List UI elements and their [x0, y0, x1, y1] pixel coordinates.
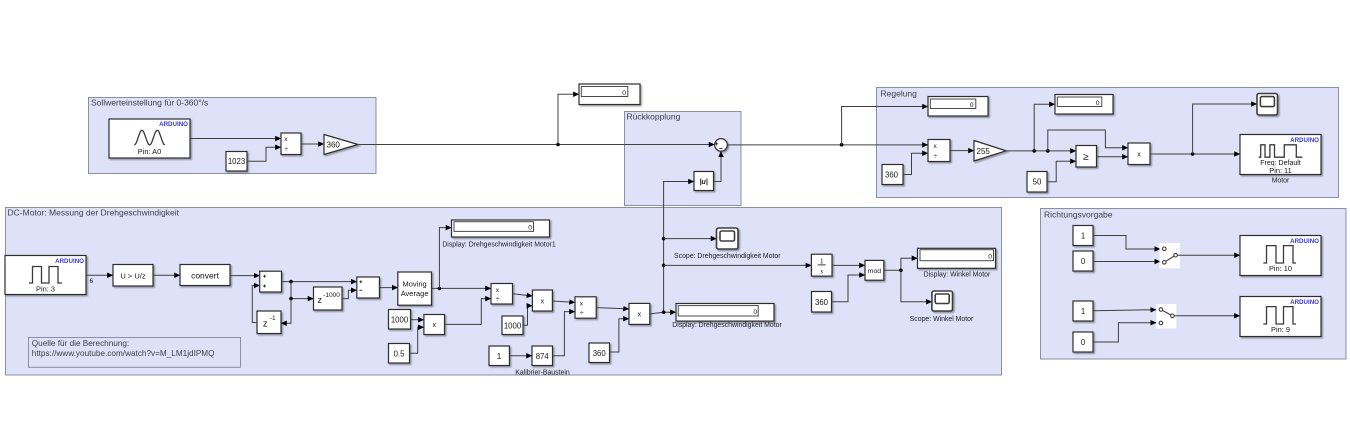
- svg-text:z: z: [263, 319, 268, 329]
- junction setpoint-display: [556, 143, 560, 147]
- gain 360: [324, 135, 358, 155]
- junction D (vertical feedback): [662, 310, 666, 314]
- block ARDUINO PWM Motor Pin 11: [1240, 135, 1321, 175]
- display Regelung 1: [928, 97, 988, 117]
- wire 360 to divide: [903, 153, 928, 174]
- area DC-Motor: [6, 208, 1002, 376]
- wire x2 to x3: [552, 301, 575, 302]
- area Sollwerteinstellung: [89, 98, 377, 174]
- wire pin3 to U>U/z: [86, 274, 113, 276]
- junction C: [438, 287, 442, 291]
- svg-text:0: 0: [1096, 100, 1100, 107]
- wire to scope DG: [664, 238, 717, 240]
- wire branch to scope regelung: [1193, 104, 1257, 154]
- wire 0.5 to x1: [410, 327, 424, 353]
- junction E: [899, 269, 903, 273]
- svg-text:1: 1: [1081, 232, 1085, 241]
- svg-text:z: z: [318, 295, 323, 305]
- svg-text:Sollwerteinstellung für 0-360°: Sollwerteinstellung für 0-360°/s: [91, 98, 208, 108]
- junction integrator branch: [662, 264, 666, 268]
- display Winkel Motor: [918, 248, 996, 268]
- wire main setpoint line: [358, 144, 715, 146]
- svg-text:-1: -1: [270, 315, 276, 322]
- svg-text:1000: 1000: [504, 321, 522, 330]
- display Regelung 2: [1055, 95, 1113, 115]
- svg-text:Rückkopplung: Rückkopplung: [627, 112, 681, 122]
- wire feedback vertical to abs: [664, 182, 694, 313]
- svg-text:÷: ÷: [496, 297, 500, 304]
- manual switch 2: [1156, 304, 1176, 328]
- svg-text:0: 0: [988, 253, 992, 260]
- constant 360 (mod): [812, 292, 832, 313]
- junction product branch: [1046, 149, 1050, 153]
- manual switch 1: [1160, 243, 1181, 268]
- wire convert to sum1: [230, 275, 260, 277]
- svg-text:Kalibrier-Baustein: Kalibrier-Baustein: [515, 369, 570, 376]
- svg-text:DC-Motor: Messung der Drehgesc: DC-Motor: Messung der Drehgeschwindigkei…: [8, 208, 180, 218]
- wire A0 to product: [190, 138, 281, 140]
- svg-text:convert: convert: [191, 270, 220, 280]
- area Richtungsvorgabe: [1041, 209, 1347, 360]
- svg-text:360: 360: [327, 141, 341, 150]
- svg-text:s: s: [820, 267, 823, 276]
- display Sollwert (top): [579, 84, 640, 105]
- sum block S2: [357, 277, 380, 298]
- svg-text:0.5: 0.5: [394, 350, 406, 359]
- wire x3 to x4: [596, 308, 629, 309]
- wire 1000(2) to x2: [523, 306, 532, 326]
- wire 1A to switch1: [1093, 236, 1160, 250]
- product-divide P1: [281, 133, 301, 155]
- constant 0 (Richtung A): [1073, 251, 1093, 271]
- constant 360 (bottom): [589, 343, 610, 363]
- svg-text:ARDUINO: ARDUINO: [1290, 137, 1319, 144]
- constant 1 (Kalibrier): [489, 346, 509, 366]
- svg-text:0: 0: [1081, 338, 1086, 347]
- product Regelung: [1128, 143, 1150, 165]
- svg-text:Motor: Motor: [1272, 177, 1290, 184]
- svg-text:÷: ÷: [580, 310, 584, 317]
- wire to convert: [153, 274, 180, 276]
- wire switch1 to pin10: [1177, 254, 1240, 256]
- display Drehgeschwindigkeit Motor1: [452, 220, 550, 237]
- constant 0 (Richtung B): [1073, 332, 1093, 352]
- svg-text:≥: ≥: [1083, 152, 1089, 163]
- svg-text:x: x: [432, 322, 436, 329]
- junction scope branch regelung: [1191, 152, 1195, 156]
- wire z-1 to S1 lower input: [252, 286, 259, 323]
- wire 360 to x4: [610, 319, 630, 352]
- svg-text:ARDUINO: ARDUINO: [1290, 299, 1319, 306]
- wire mod to display winkel: [884, 258, 918, 270]
- svg-text:0: 0: [970, 102, 974, 109]
- relational operator >=: [1076, 146, 1097, 168]
- svg-text:ARDUINO: ARDUINO: [1290, 238, 1319, 245]
- wire D2 to x2: [513, 294, 533, 296]
- svg-text:÷: ÷: [934, 154, 938, 161]
- wire abs to sum: [714, 151, 722, 181]
- block ARDUINO digital input Pin 3: [5, 256, 86, 295]
- block mod: [865, 260, 884, 280]
- wire S2 to Moving Average: [379, 287, 397, 289]
- area Rueckkopplung: [625, 112, 742, 206]
- svg-text:|u|: |u|: [700, 179, 708, 186]
- junction scope branch: [662, 237, 666, 241]
- sum junction (feedback): [715, 139, 728, 152]
- block ARDUINO analog input A0: [109, 119, 190, 158]
- svg-text:0: 0: [622, 90, 626, 97]
- svg-text:0: 0: [753, 309, 757, 316]
- wire branch to display Regelung2: [1034, 104, 1055, 151]
- wire sum to Regelung divide: [727, 144, 928, 146]
- delay z-1000: [314, 287, 343, 310]
- svg-text:360: 360: [815, 298, 829, 307]
- product-divide x3: [575, 297, 596, 318]
- wire switch2 to pin9: [1174, 315, 1240, 317]
- constant 1000 (2): [502, 316, 523, 335]
- wire branch to product top: [1048, 130, 1128, 151]
- svg-text:x: x: [541, 298, 545, 305]
- svg-text:0: 0: [528, 225, 532, 232]
- svg-text:Average: Average: [401, 289, 429, 298]
- block U > U/z: [113, 265, 153, 287]
- svg-text:6: 6: [90, 278, 94, 285]
- wire 874 to x3: [553, 312, 576, 356]
- svg-text:1023: 1023: [228, 157, 245, 166]
- annotation Quelle: [29, 338, 241, 368]
- svg-text:874: 874: [536, 352, 550, 361]
- wire 0A to switch1: [1093, 261, 1160, 263]
- svg-text:mod: mod: [868, 268, 881, 275]
- wire z-1000 to S2 lower input: [342, 290, 357, 298]
- wire 1/s to mod: [832, 264, 865, 266]
- svg-text:ARDUINO: ARDUINO: [159, 121, 188, 128]
- product x4: [629, 303, 650, 324]
- wire 50 to relational: [1047, 161, 1076, 182]
- svg-text:ARDUINO: ARDUINO: [55, 258, 84, 265]
- svg-text:÷: ÷: [284, 147, 288, 154]
- svg-text:U > U/z: U > U/z: [120, 271, 145, 280]
- svg-text:Regelung: Regelung: [881, 89, 918, 99]
- wire 1B to switch2: [1093, 310, 1156, 311]
- junction B: [289, 297, 293, 301]
- svg-text:x: x: [638, 312, 642, 319]
- svg-text:360: 360: [885, 170, 899, 179]
- product x2: [532, 290, 552, 311]
- constant 1000 (gain numerator): [389, 310, 411, 330]
- svg-text:Display: Winkel Motor: Display: Winkel Motor: [924, 272, 991, 279]
- svg-text:1000: 1000: [391, 316, 409, 325]
- svg-text:1: 1: [497, 352, 501, 361]
- svg-text:-1000: -1000: [323, 292, 340, 299]
- wire 1000 to x1: [411, 319, 424, 321]
- wire x1 to divide2: [445, 299, 492, 325]
- junction A: [289, 280, 293, 284]
- wire mod to scope winkel: [901, 270, 932, 302]
- junction display2 branch: [1032, 149, 1036, 153]
- wire P1 to gain360: [301, 143, 324, 145]
- constant 1 (Richtung B): [1073, 301, 1093, 321]
- abs block |u|: [694, 172, 714, 191]
- wire x4 to display3: [650, 312, 676, 314]
- wire down to z-1000: [291, 282, 314, 299]
- sum block S1: [260, 271, 282, 292]
- wire to integrator: [664, 264, 812, 266]
- svg-text:x: x: [1137, 152, 1141, 159]
- divide block D2: [491, 284, 513, 305]
- svg-text:Scope: Winkel Motor: Scope: Winkel Motor: [910, 316, 974, 323]
- wire S1 to S2: [282, 281, 357, 283]
- wire branch to display1: [439, 228, 451, 289]
- svg-text:Display: Drehgeschwindigkeit M: Display: Drehgeschwindigkeit Motor: [672, 322, 782, 329]
- wire branch to display Regelung1: [842, 107, 928, 145]
- constant 0.5: [389, 344, 410, 364]
- scope Drehgeschwindigkeit Motor: [717, 228, 739, 249]
- svg-text:Moving: Moving: [403, 279, 427, 288]
- wire down to z-1: [281, 299, 291, 324]
- wire gain255 to relational: [1006, 150, 1076, 152]
- scope Winkel Motor: [932, 291, 953, 311]
- svg-text:Pin: 9: Pin: 9: [1271, 325, 1290, 334]
- svg-text:0: 0: [1081, 257, 1086, 266]
- wire 360 to mod: [832, 275, 866, 302]
- wire relational to product: [1097, 156, 1129, 158]
- divide block Regelung: [928, 140, 950, 162]
- block convert: [180, 265, 230, 286]
- constant 1 (Richtung A): [1073, 226, 1093, 246]
- display Drehgeschwindigkeit Motor: [676, 304, 774, 322]
- svg-text:1: 1: [820, 257, 824, 266]
- area Regelung: [877, 88, 1339, 198]
- unit delay z-1 (mirrored): [257, 311, 281, 334]
- wire branch to display top: [558, 94, 579, 144]
- junction regelung display branch: [840, 143, 844, 147]
- svg-text:1: 1: [1081, 307, 1085, 316]
- scope Regelung: [1257, 94, 1278, 116]
- svg-text:https://www.youtube.com/watch?: https://www.youtube.com/watch?v=M_LM1jdI…: [32, 349, 215, 358]
- constant 360 Regelung: [882, 165, 903, 185]
- svg-text:360: 360: [593, 349, 607, 358]
- block Moving Average: [398, 272, 432, 305]
- gain 255: [974, 141, 1006, 162]
- svg-text:Display: Drehgeschwindigkeit M: Display: Drehgeschwindigkeit Motor1: [442, 242, 556, 249]
- wire 0B to switch2: [1093, 323, 1156, 342]
- svg-text:Scope: Drehgeschwindigkeit Mot: Scope: Drehgeschwindigkeit Motor: [674, 253, 781, 260]
- integrator 1/s: [811, 254, 832, 276]
- svg-text:255: 255: [977, 147, 991, 156]
- svg-text:50: 50: [1033, 178, 1042, 187]
- wire MA to divide2: [432, 287, 492, 289]
- wire divide to gain255: [950, 150, 974, 152]
- block ARDUINO PWM Pin 10: [1240, 236, 1321, 276]
- svg-text:Richtungsvorgabe: Richtungsvorgabe: [1044, 210, 1113, 220]
- wire 1023 to product: [247, 147, 281, 161]
- constant 50: [1027, 172, 1047, 193]
- wire product to motor: [1150, 153, 1240, 155]
- svg-text:Pin: 3: Pin: 3: [36, 284, 55, 293]
- product x1: [424, 315, 445, 335]
- wire 1 to 874: [509, 355, 532, 357]
- svg-text:Quelle für die Berechnung:: Quelle für die Berechnung:: [32, 339, 129, 348]
- svg-text:Pin: 11: Pin: 11: [1269, 166, 1291, 175]
- constant 874 Kalibrier-Baustein: [532, 346, 553, 366]
- svg-text:Pin: 10: Pin: 10: [1269, 264, 1292, 273]
- constant 1023: [226, 152, 247, 172]
- block ARDUINO PWM Pin 9: [1240, 297, 1321, 337]
- svg-text:Pin: A0: Pin: A0: [138, 147, 161, 156]
